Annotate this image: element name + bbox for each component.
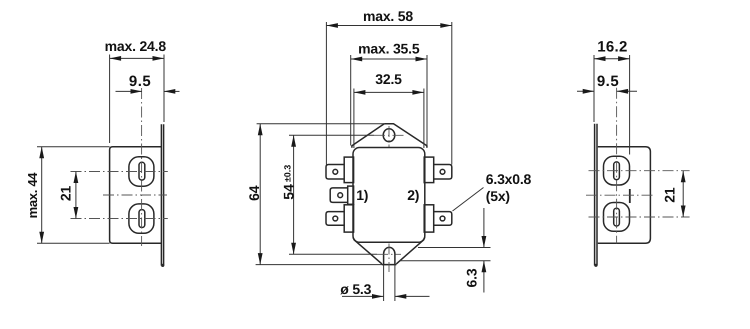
svg-text:max. 44: max. 44 [25,172,40,219]
svg-text:1): 1) [356,187,368,203]
svg-text:64: 64 [246,185,262,201]
svg-text:9.5: 9.5 [597,73,619,90]
svg-text:2): 2) [407,187,419,203]
svg-text:max. 58: max. 58 [363,8,413,24]
svg-text:6.3x0.8: 6.3x0.8 [486,171,532,187]
svg-text:32.5: 32.5 [375,71,402,87]
svg-text:max. 35.5: max. 35.5 [358,41,420,57]
svg-text:21: 21 [661,187,677,203]
svg-text:max. 24.8: max. 24.8 [105,38,167,54]
svg-text:16.2: 16.2 [597,39,627,56]
svg-text:ø 5.3: ø 5.3 [340,281,371,297]
svg-text:9.5: 9.5 [129,73,151,90]
svg-text:(5x): (5x) [486,188,510,204]
svg-text:6.3: 6.3 [463,268,479,287]
svg-text:21: 21 [58,186,74,202]
